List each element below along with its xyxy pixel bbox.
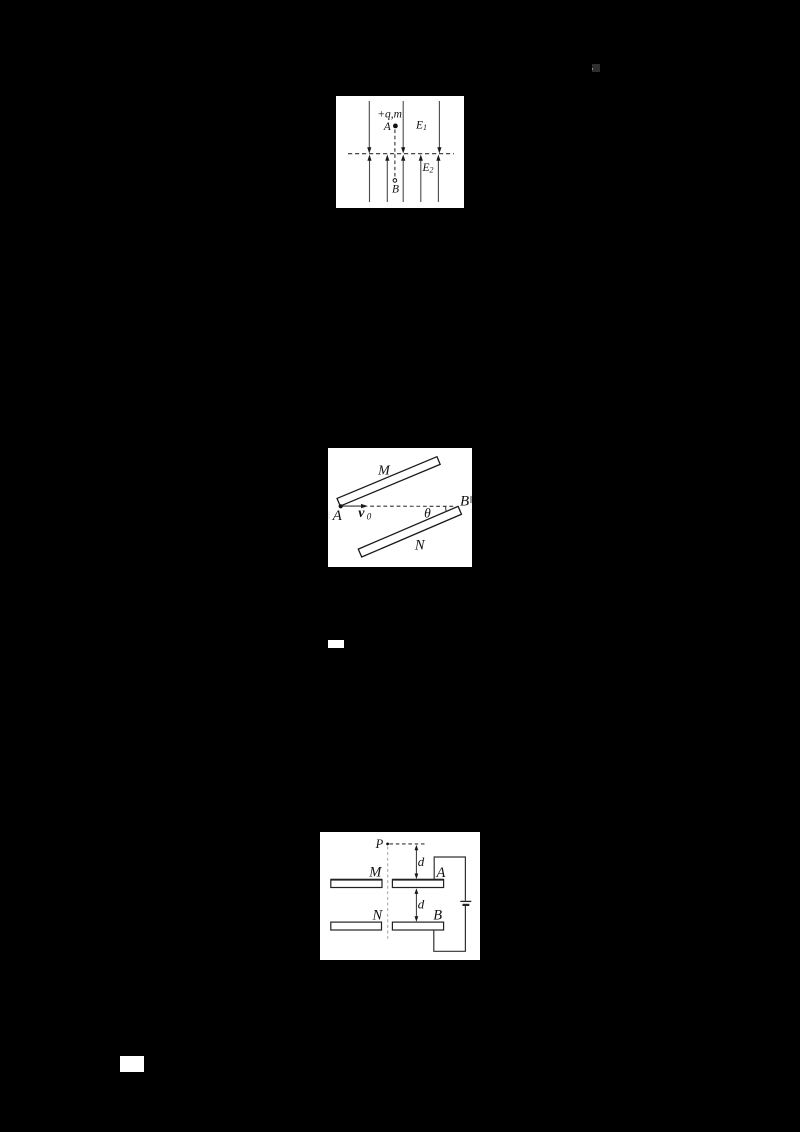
dashed mid line — [348, 153, 454, 155]
small dark icon top right — [592, 64, 600, 72]
svg-text:+q,m: +q,m — [377, 108, 402, 120]
svg-text:B: B — [392, 183, 399, 195]
point B circle — [393, 179, 397, 183]
svg-text:d: d — [418, 896, 425, 911]
plate A — [392, 879, 443, 887]
svg-text:N: N — [372, 907, 384, 923]
svg-text:E2: E2 — [421, 162, 433, 174]
point A dot — [338, 504, 342, 508]
d arrow lower — [415, 891, 417, 918]
upper arrowheads (down) — [367, 147, 441, 153]
d arrow upper — [415, 848, 417, 876]
svg-text:A: A — [331, 508, 342, 524]
wire from plate A up and right — [434, 857, 465, 901]
angle mark — [444, 507, 446, 512]
vertical dashed axis — [387, 846, 389, 938]
svg-text:θ: θ — [424, 506, 431, 521]
upper field line 1 — [369, 101, 439, 148]
lower arrowheads (up) — [367, 154, 440, 160]
svg-text:v: v — [358, 506, 365, 521]
svg-text:P: P — [375, 836, 384, 850]
svg-text:M: M — [377, 464, 391, 479]
svg-text:A: A — [436, 864, 446, 880]
plate M — [337, 457, 440, 506]
plate B — [392, 922, 443, 930]
white rect bottom left — [120, 1056, 144, 1072]
point P dot — [386, 842, 389, 845]
figure 2: inclined plates M,N with velocity v0 — [328, 448, 472, 567]
figure 1: charge between opposing uniform fields E1/E2 — [336, 96, 464, 208]
plate M — [331, 879, 382, 887]
svg-text:d: d — [418, 853, 425, 868]
svg-text:B: B — [433, 907, 442, 923]
plate N — [358, 507, 461, 558]
figure 3: capacitor plates with battery — [320, 832, 480, 961]
dashed horizontal from P — [389, 842, 425, 844]
svg-text:M: M — [368, 864, 382, 880]
gray tick right edge — [470, 496, 472, 503]
dashed line A to B — [370, 505, 455, 507]
svg-text:0: 0 — [367, 512, 372, 522]
lower field lines — [370, 160, 439, 202]
battery long plate — [460, 900, 471, 902]
svg-text:B: B — [460, 494, 469, 510]
v0 arrow — [342, 505, 361, 507]
battery short plate — [462, 903, 469, 905]
dashed path A to B — [394, 129, 396, 177]
wire battery to plate B — [434, 905, 466, 951]
svg-text:E1: E1 — [415, 119, 427, 131]
faint tick left edge — [327, 512, 330, 520]
svg-text:A: A — [383, 121, 392, 133]
svg-text:N: N — [414, 538, 426, 554]
plate N — [331, 922, 382, 930]
point A dot — [393, 123, 398, 128]
white dash mark — [328, 640, 344, 648]
